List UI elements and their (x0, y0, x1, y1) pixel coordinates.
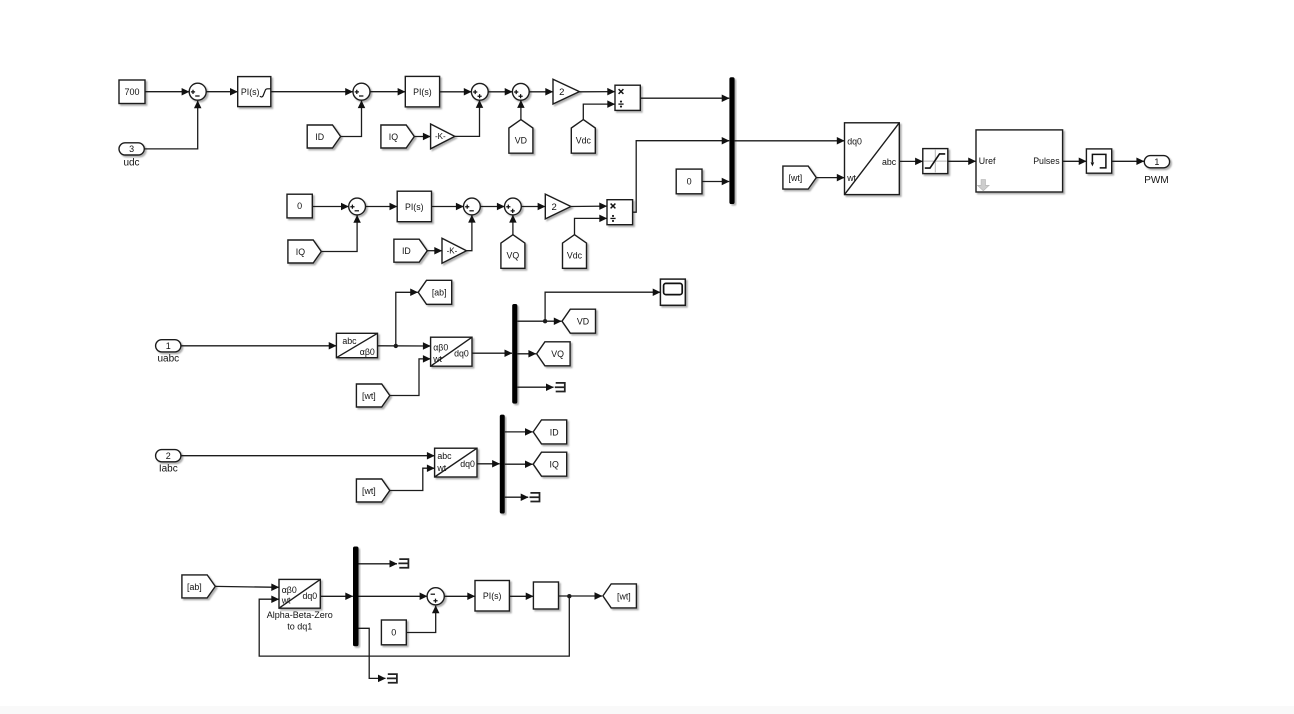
wire wt to ab0dq0 (390, 359, 431, 396)
svg-text:VD: VD (515, 136, 527, 146)
wire RateBlock to PWM outport (1112, 160, 1144, 162)
constant 700 (119, 80, 145, 104)
wire abc to Saturation (899, 160, 922, 162)
transform dq0 to abc U1 (845, 123, 900, 195)
PID controller PI2 (405, 76, 439, 107)
wire PI1 to Sum2 (271, 91, 353, 93)
wire 0 to Mux (702, 181, 729, 183)
outport 1 PWM (1144, 156, 1169, 186)
svg-text:0: 0 (391, 628, 396, 638)
svg-text:[wt]: [wt] (617, 591, 631, 601)
wire Demux1 to VD (517, 320, 561, 322)
node ab junction (394, 344, 398, 348)
wire Demux3 to terminator4 (359, 628, 386, 678)
sum Sum2 (353, 83, 370, 100)
mux Mux1 (729, 77, 734, 204)
wire K1 to Sum3 (455, 100, 480, 136)
wire wt to abc-dq0 (390, 468, 435, 490)
sum Sum3 (471, 83, 488, 100)
wire Sum7 to gain2b (521, 206, 545, 208)
svg-text:Pulses: Pulses (1033, 156, 1060, 166)
transform ab0 to dq0 U3 (431, 337, 472, 366)
wire VQ to Sum7 (512, 215, 514, 234)
saturation block (923, 149, 948, 174)
wire Sum3 to Sum4 (488, 91, 512, 93)
svg-text:PI(s): PI(s) (483, 591, 502, 601)
wire Demux2 to terminator2 (505, 496, 528, 498)
demux Demux3 (353, 547, 359, 647)
inport 2 Iabc (156, 450, 181, 475)
wire PI3 to Sum6 (432, 206, 464, 208)
svg-text:αβ0: αβ0 (360, 347, 375, 357)
wire VD to Sum4 (520, 100, 522, 119)
svg-text:[ab]: [ab] (432, 288, 447, 298)
wire U3 to Demux1 (472, 352, 512, 354)
wire 0 to Sum5 (312, 206, 348, 208)
wire udc to Sum1 (144, 101, 197, 149)
svg-text:[wt]: [wt] (362, 486, 376, 496)
transform abc to alphabeta U2 (336, 333, 377, 357)
svg-text:dq0: dq0 (303, 591, 318, 601)
svg-text:wt: wt (436, 463, 446, 473)
svg-text:PI(s): PI(s) (241, 87, 260, 97)
svg-text:IQ: IQ (296, 247, 305, 257)
node feedback junction (567, 594, 571, 598)
svg-text:ID: ID (402, 246, 411, 256)
wire K2 to Sum6 (467, 215, 472, 251)
from tag ID row2 (394, 239, 427, 262)
transform abc to dq0 U4 (435, 448, 477, 477)
wire IQ to Sum5 (321, 215, 357, 251)
svg-text:wt: wt (432, 354, 442, 364)
from tag ID row1 (307, 125, 340, 148)
svg-text:dq0: dq0 (460, 459, 475, 469)
wire Product1 to Mux (640, 97, 729, 99)
goto tag ID (533, 420, 567, 444)
PID controller PI4 (475, 581, 509, 612)
svg-text:-K-: -K- (435, 132, 446, 141)
from tag ab bottom (182, 575, 215, 598)
rate transition block (1086, 149, 1111, 173)
wire Iabc to abc-dq0 (181, 455, 434, 457)
transform alphabeta to dq1 U5 (279, 579, 320, 608)
wire Vdc to Product1 (583, 104, 615, 119)
unit delay block (533, 582, 558, 609)
demux Demux1 (512, 304, 517, 404)
terminator row4 (530, 493, 540, 502)
PID controller PI3 (397, 191, 431, 222)
from tag wt row1 (783, 166, 816, 189)
svg-text:ID: ID (550, 427, 559, 437)
constant 0 row2 (287, 194, 312, 218)
svg-text:abc: abc (882, 157, 897, 167)
svg-text:VQ: VQ (507, 251, 520, 261)
svg-text:Vdc: Vdc (567, 251, 583, 261)
bottom status strip (0, 706, 1294, 714)
wire ab0 out (378, 345, 431, 347)
svg-text:1: 1 (166, 341, 171, 351)
svg-text:1: 1 (1154, 157, 1159, 167)
wire Demux2 to ID (505, 431, 533, 433)
wire Demux1 to VQ (517, 353, 536, 355)
wire junction to ab tag (396, 292, 418, 346)
product Product1 (615, 85, 640, 110)
constant 0 mux (676, 169, 702, 194)
wire wt to dq0-abc (816, 177, 844, 179)
svg-text:2: 2 (551, 202, 556, 213)
from tag IQ row1 (381, 125, 414, 148)
sum Sum5 (349, 198, 366, 215)
PWM generator block (976, 130, 1063, 192)
wire delay to wt goto (559, 595, 603, 597)
wire Sum8 to PI4 (444, 595, 475, 597)
goto tag VQ (537, 342, 571, 366)
from tag VQ row2 (501, 235, 525, 269)
from tag wt row3 (356, 384, 389, 407)
wire gain2b to Product2 (571, 205, 607, 207)
wire Pulses to RateBlock (1063, 160, 1087, 162)
gain -K- row2 (442, 238, 467, 263)
svg-text:PI(s): PI(s) (413, 87, 432, 97)
wire U5 to Demux3 (320, 595, 353, 597)
wire Sum1 to PI1 (206, 91, 237, 93)
wire Demux2 to IQ (505, 463, 533, 465)
sum Sum7 (505, 198, 522, 215)
svg-text:ID: ID (315, 132, 324, 142)
svg-text:2: 2 (559, 87, 564, 98)
wire Sum6 to Sum7 (480, 206, 504, 208)
wire Product2 to Mux (633, 141, 730, 213)
wire ID to gain K2 (427, 250, 442, 252)
wire PI4 to delay block (509, 595, 533, 597)
gain 2 row1 (553, 79, 579, 104)
gain 2 row2 (545, 194, 571, 219)
wire ab to U5 (215, 585, 278, 588)
svg-text:dq0: dq0 (847, 137, 862, 147)
wire Sum5 to PI3 (366, 206, 398, 208)
svg-text:abc: abc (437, 451, 452, 461)
wire IQ to gain K1 (414, 136, 430, 138)
svg-text:PI(s): PI(s) (405, 202, 424, 212)
goto tag VD (562, 309, 596, 333)
svg-text:[wt]: [wt] (362, 391, 376, 401)
svg-text:VD: VD (577, 317, 589, 327)
wire Demux3 to Sum8 (359, 595, 428, 597)
from tag wt row4 (356, 479, 389, 502)
constant 0 bottom (381, 620, 406, 645)
wire U4 to Demux2 (477, 463, 500, 465)
wire 700 to Sum1 (145, 91, 189, 93)
svg-text:2: 2 (166, 451, 171, 461)
wire Vdc2 to Product2 (575, 218, 607, 234)
svg-text:Vdc: Vdc (576, 136, 592, 146)
wire Saturation to PWM Generator (948, 160, 976, 162)
svg-text:0: 0 (687, 177, 692, 187)
svg-text:VQ: VQ (551, 349, 564, 359)
goto tag wt (603, 584, 637, 608)
goto tag IQ (533, 452, 567, 476)
wire ID to Sum2 (341, 101, 362, 137)
wire uabc to abc-ab (181, 345, 336, 347)
svg-text:αβ0: αβ0 (282, 585, 297, 595)
wire feedback loop (259, 596, 569, 656)
svg-text:IQ: IQ (389, 132, 398, 142)
svg-text:[wt]: [wt] (789, 173, 803, 183)
goto tag ab (418, 280, 452, 304)
svg-text:abc: abc (342, 336, 357, 346)
svg-text:Iabc: Iabc (159, 464, 178, 475)
svg-text:0: 0 (297, 201, 302, 211)
svg-text:3: 3 (129, 144, 134, 154)
sum Sum6 (464, 198, 481, 215)
wire junction to Scope (545, 292, 660, 321)
inport 3 udc (119, 143, 144, 169)
svg-text:uabc: uabc (157, 354, 179, 365)
svg-text:[ab]: [ab] (187, 582, 202, 592)
wire Sum4 to gain2a (529, 91, 553, 93)
terminator bottom bottom-section (387, 674, 397, 683)
from tag Vdc row1 (571, 120, 595, 154)
wire Mux1 to dq0-abc (735, 140, 845, 142)
wire Sum2 to PI2 (370, 91, 405, 93)
sum Sum4 (512, 83, 529, 100)
wire Demux1 to terminator1 (517, 386, 553, 388)
from tag Vdc row2 (563, 235, 587, 269)
svg-text:αβ0: αβ0 (433, 342, 448, 352)
from tag IQ row2 (288, 240, 321, 263)
svg-text:PWM: PWM (1144, 175, 1168, 186)
svg-text:Alpha-Beta-Zero: Alpha-Beta-Zero (267, 610, 333, 620)
svg-text:dq0: dq0 (454, 348, 469, 358)
svg-text:IQ: IQ (550, 460, 559, 470)
wire 0 to Sum8 (406, 606, 435, 633)
svg-text:700: 700 (124, 87, 139, 97)
from tag VD row1 (509, 120, 533, 154)
svg-text:udc: udc (123, 158, 139, 169)
inport 1 uabc (156, 340, 181, 365)
demux Demux2 (500, 415, 505, 514)
PID controller PI1 (238, 77, 271, 107)
gain -K- row1 (431, 124, 455, 149)
wire PI2 to Sum3 (440, 91, 472, 93)
svg-text:wt: wt (281, 595, 291, 605)
product Product2 (607, 200, 633, 225)
sum Sum8 (427, 588, 444, 605)
node VD junction (543, 319, 547, 323)
scope block (660, 279, 685, 305)
svg-text:Uref: Uref (979, 156, 996, 166)
svg-text:wt: wt (846, 173, 856, 183)
svg-text:to dq1: to dq1 (287, 621, 312, 631)
terminator top bottom-section (398, 559, 408, 568)
sum Sum1 (189, 83, 206, 100)
svg-text:-K-: -K- (447, 246, 458, 255)
terminator row3 (555, 383, 565, 392)
wire Demux3 to terminator3 (359, 563, 398, 565)
wire gain2a to Product1 (579, 91, 614, 93)
